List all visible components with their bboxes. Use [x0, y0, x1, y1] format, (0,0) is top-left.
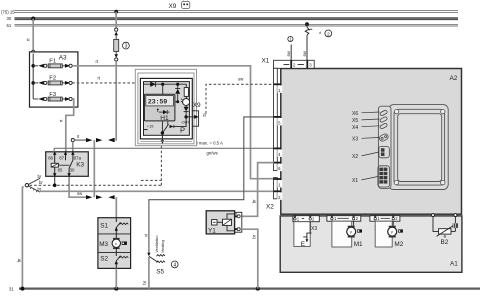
- timer P circuit area: [144, 82, 190, 136]
- wire X9 a dashed to X1 pin1 (sw): [206, 84, 274, 113]
- wire A3 internal feed: [32, 54, 34, 99]
- svg-text:sw: sw: [286, 50, 291, 56]
- wire rt line to connector: [74, 139, 86, 141]
- junction on bus 30 (A3 tap): [31, 17, 35, 21]
- connector X1 top housing: [274, 60, 315, 68]
- wire A2 to X5 pin1: [374, 214, 376, 217]
- svg-text:H1: H1: [160, 115, 169, 122]
- svg-text:30: 30: [70, 167, 75, 172]
- wire OUT to X9 a: [186, 116, 194, 118]
- svg-text:sw: sw: [238, 76, 244, 81]
- Y1 connector pins: [227, 214, 237, 219]
- svg-text:X9: X9: [193, 102, 201, 109]
- svg-text:S5: S5: [156, 268, 164, 275]
- svg-text:E: E: [301, 241, 305, 248]
- wire zener to display: [175, 101, 178, 103]
- bus 61 (double line): [15, 24, 459, 26]
- fuse F2: [33, 76, 72, 85]
- svg-text:Ventilation: Ventilation: [155, 235, 159, 252]
- connector arrow (left) from fuse3 wire: [108, 138, 114, 142]
- svg-text:S1: S1: [100, 223, 108, 230]
- svg-text:A3: A3: [59, 55, 67, 62]
- label circled 1: [288, 36, 293, 41]
- wire fuse 3 down to connector pair: [114, 61, 117, 140]
- bus 15 (double line): [15, 11, 459, 13]
- plug arrow into fuse 3: [114, 32, 118, 36]
- fan box S1/M3/S2: [98, 218, 131, 269]
- wire X1 pin6 to Y1 top: [242, 163, 274, 217]
- flow arrow 1: [115, 228, 117, 234]
- svg-text:86: 86: [48, 156, 53, 161]
- H1 indicator LED: [157, 109, 159, 111]
- fuse F3: [33, 92, 72, 101]
- wire Y1 bottom to bus 31 (br): [240, 229, 258, 288]
- fuse box A3: [30, 52, 78, 107]
- svg-text:K3: K3: [76, 162, 84, 169]
- K3 coil link: [58, 164, 69, 166]
- wire note1 to X1 pin2 (sw): [290, 45, 292, 61]
- wire to fan box S1: [115, 197, 117, 217]
- junction OUT: [184, 115, 187, 118]
- svg-text:v: v: [115, 241, 117, 246]
- junction zener feed: [176, 83, 179, 86]
- wire A2 to X3 pin2: [309, 214, 311, 217]
- K3 switch blade: [69, 160, 73, 168]
- X9 bracket right: [193, 111, 199, 126]
- control unit box A2: [281, 69, 462, 215]
- wire F2 to P (rt dashed): [72, 82, 136, 84]
- K3 pin 87: [64, 151, 67, 155]
- junction bus31 fan: [114, 287, 118, 291]
- LED circle: [185, 96, 187, 98]
- svg-text:B2: B2: [441, 239, 449, 246]
- svg-text:A1: A1: [450, 261, 458, 268]
- junction on bus 61 (X1.3 tap): [305, 22, 309, 26]
- wire fan box to bus 31: [115, 268, 117, 288]
- label circled 4: [171, 261, 178, 268]
- socket X6: [380, 110, 388, 116]
- svg-text:2: 2: [327, 31, 330, 37]
- node rt line from K3 87a: [71, 139, 74, 142]
- wire bus30 down to A3: [32, 19, 34, 51]
- svg-text:br: br: [252, 234, 257, 238]
- svg-text:vi: vi: [144, 234, 149, 237]
- svg-text:X2: X2: [266, 203, 274, 210]
- svg-text:X4: X4: [352, 125, 358, 131]
- P bottom rail line: [140, 141, 192, 143]
- wire wedge to X2 pin2: [40, 190, 274, 192]
- fuse 3 body: [114, 39, 119, 51]
- terminal 15 stub: [144, 129, 148, 131]
- svg-text:sw: sw: [302, 50, 307, 56]
- svg-text:br: br: [38, 174, 42, 179]
- svg-text:X3: X3: [311, 226, 317, 232]
- wire K3 87a drop: [72, 142, 74, 152]
- ground bus 31: [19, 288, 480, 290]
- junction zener bottom: [176, 100, 179, 103]
- wire bus61 to breaker to X1 pin3 (sw): [306, 24, 308, 27]
- svg-text:br: br: [142, 280, 147, 284]
- timer P outer enclosure: [135, 69, 196, 145]
- wire wedge to ground bus 31 (br): [22, 186, 23, 288]
- plug arrow below fuse 3: [115, 51, 117, 54]
- X2 pin 1: [274, 178, 282, 180]
- svg-text:X1: X1: [352, 178, 358, 184]
- svg-text:+15: +15: [147, 124, 154, 129]
- connector arrow pair upper row: [96, 138, 102, 142]
- svg-text:S2: S2: [100, 255, 108, 262]
- wire A2 to X3 pin1: [294, 214, 296, 217]
- svg-text:(75) 15: (75) 15: [1, 9, 15, 14]
- K3 pin 87a: [71, 151, 74, 155]
- svg-text:X3: X3: [352, 136, 358, 142]
- junction K3 85 on dashed bus: [53, 184, 57, 188]
- svg-text:X6: X6: [352, 111, 358, 117]
- X2 pin 2: [274, 190, 282, 192]
- connector X3: [293, 216, 319, 222]
- wire F1 to X2 pin1 (rt): [72, 66, 274, 179]
- K3 pin 86: [53, 151, 56, 155]
- zener diode: [175, 84, 180, 102]
- ground dashed jog segment: [141, 179, 161, 181]
- svg-text:Y1: Y1: [208, 227, 216, 234]
- connector X9 icon (top): [182, 1, 190, 9]
- pin 3 mark: [306, 60, 308, 68]
- svg-text:23:59: 23:59: [148, 98, 168, 106]
- connector arrow pair lower row: [96, 195, 102, 199]
- wire X1 pin5 to switch S5 (vi): [149, 117, 274, 253]
- wire K3 85 to ground bus (br dashed): [54, 177, 56, 185]
- junction P bottom: [161, 131, 164, 134]
- ECU connector strip: [378, 106, 391, 188]
- wire A2 to X4 pin2: [353, 214, 355, 217]
- svg-text:87a: 87a: [74, 156, 82, 161]
- label circled 2: [325, 30, 332, 37]
- label circled 3: [123, 42, 130, 49]
- wire display feed: [162, 84, 164, 94]
- wire bus15 to fuse 3: [115, 12, 117, 29]
- wedge connector to vehicle (br): [25, 174, 43, 192]
- valve Y1: [206, 211, 242, 235]
- bus 30 (double line thick): [15, 18, 459, 20]
- svg-text:M2: M2: [394, 241, 403, 248]
- connector circle at A3 top: [32, 50, 35, 53]
- connector X5: [370, 216, 400, 222]
- svg-text:d: d: [319, 31, 321, 35]
- svg-text:I max. = 0.5 A: I max. = 0.5 A: [197, 140, 224, 145]
- wire A2 to X4 pin1: [331, 214, 333, 217]
- wire vertical link connector column: [93, 140, 95, 197]
- svg-text:87: 87: [59, 156, 64, 161]
- heater ECU pictorial body: [389, 105, 449, 190]
- svg-text:br: br: [251, 199, 256, 203]
- svg-text:4: 4: [173, 262, 176, 268]
- wire P ground dashed: [160, 146, 162, 185]
- svg-text:Heating: Heating: [161, 240, 165, 253]
- svg-text:X5: X5: [352, 118, 358, 124]
- junction display feed: [161, 83, 164, 86]
- junction at F1: [31, 64, 35, 68]
- junction at F2: [31, 81, 35, 85]
- relay K3: [46, 151, 89, 177]
- resistor in P: [185, 84, 187, 87]
- heater box A1: [280, 216, 462, 272]
- connector X2 housing: [274, 178, 283, 200]
- display module H1: [144, 94, 175, 121]
- socket X5: [380, 116, 388, 122]
- svg-text:X1: X1: [262, 58, 270, 65]
- switch S5 ventilation/heating: [147, 235, 178, 275]
- wire A2 to X5 pin2: [392, 214, 394, 217]
- wire S5 to ground bus (br): [148, 257, 150, 289]
- K3 pin 85: [54, 167, 56, 173]
- K3 coil: [51, 163, 58, 167]
- sensor B2: [432, 214, 459, 247]
- svg-text:61: 61: [7, 23, 12, 28]
- pin 2 mark: [290, 60, 292, 68]
- svg-text:3: 3: [125, 44, 128, 50]
- socket X2: [379, 146, 389, 157]
- svg-text:30: 30: [7, 16, 12, 21]
- svg-text:br: br: [39, 180, 43, 185]
- K3 pin 30: [68, 168, 70, 173]
- svg-text:br: br: [16, 258, 21, 262]
- junction bus31 Y1: [256, 287, 260, 291]
- svg-text:31: 31: [9, 286, 14, 291]
- glow plug E: [294, 222, 312, 249]
- socket X4: [380, 123, 388, 129]
- pin 4: [274, 148, 282, 150]
- ground dashed bus br: [30, 184, 162, 186]
- socket X3: [378, 133, 389, 142]
- timer P second enclosure: [138, 73, 194, 144]
- svg-text:X9: X9: [169, 3, 177, 10]
- connector arrow sw row: [86, 195, 92, 199]
- link dash: [284, 64, 290, 66]
- svg-text:85: 85: [58, 167, 63, 172]
- junction bus31 left br: [20, 287, 24, 291]
- wire OUT branch to switch: [178, 117, 187, 127]
- wire P bottom X9 pin: [161, 135, 163, 140]
- connector circle below fuse 3: [115, 58, 118, 61]
- P top rail: [144, 83, 187, 85]
- P switch transistor: [161, 121, 163, 135]
- svg-text:M1: M1: [354, 241, 363, 248]
- connector X1 left housing: [274, 68, 283, 171]
- svg-text:A2: A2: [450, 75, 458, 82]
- junction F2 wire at P edge: [135, 81, 139, 85]
- ECU screws: [394, 109, 445, 184]
- wire stub into P: [137, 82, 144, 84]
- svg-text:X2: X2: [352, 154, 358, 160]
- wire F3 down to relay K3 pin 87 (rt): [66, 99, 74, 152]
- wire K3 86 to X1 pin4 (gn/ws): [54, 148, 274, 152]
- svg-text:gn/ws: gn/ws: [207, 150, 218, 155]
- thermal breaker symbol: [305, 27, 309, 35]
- wire K3 30 to sw row: [69, 177, 86, 197]
- pin 6: [274, 162, 282, 164]
- motor M2: [375, 221, 404, 248]
- pin 5: [274, 116, 282, 118]
- pin 1: [274, 83, 282, 85]
- svg-text:M3: M3: [99, 241, 108, 248]
- connector arrow rt line: [86, 138, 92, 142]
- 7 segment window: [146, 96, 174, 106]
- timer P inner case: [140, 78, 192, 138]
- P input diode: [150, 82, 155, 87]
- fuse F1: [33, 59, 72, 68]
- junction on bus 15 (fuse 3 tap): [114, 10, 118, 14]
- socket X1: [378, 166, 390, 187]
- connector circle above fuse 3: [115, 28, 118, 31]
- connector X4: [327, 216, 361, 222]
- output diode down: [184, 106, 189, 117]
- motor M1: [332, 221, 363, 248]
